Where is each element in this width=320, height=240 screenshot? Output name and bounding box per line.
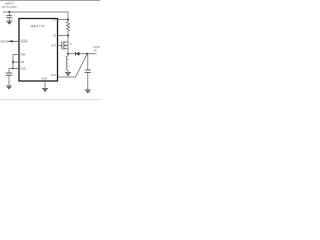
wire FB pin stub bbox=[13, 61, 19, 63]
svg-text:CS: CS bbox=[53, 35, 57, 38]
wire left branch vertical bbox=[12, 55, 14, 69]
node output junction bbox=[86, 53, 88, 55]
ground left bbox=[6, 85, 12, 87]
capacitor C2 output bbox=[87, 54, 89, 70]
wire GND pin bottom bbox=[44, 81, 46, 88]
wire page rule bottom bbox=[0, 99, 100, 101]
svg-text:GND: GND bbox=[42, 76, 48, 80]
ground GND pin bbox=[42, 88, 48, 90]
svg-text:P: P bbox=[70, 43, 72, 46]
wire GND pin stub bbox=[9, 68, 19, 70]
node input junction bbox=[8, 11, 10, 13]
node switch junction bbox=[67, 53, 69, 55]
wire CS to FET source bbox=[64, 36, 68, 43]
wire REF pin stub bbox=[13, 54, 19, 56]
svg-text:EXT: EXT bbox=[51, 45, 56, 48]
IC U1 MAX774 bbox=[19, 19, 58, 82]
svg-text:FB: FB bbox=[21, 61, 25, 64]
svg-text:GND: GND bbox=[21, 68, 27, 71]
wire diode to output bbox=[80, 53, 97, 55]
wire page rule top bbox=[0, 0, 100, 2]
svg-text:V+: V+ bbox=[53, 19, 57, 22]
svg-text:ON/OFF: ON/OFF bbox=[0, 40, 10, 43]
wire cap C3 bottom bbox=[8, 75, 10, 85]
svg-text:OUT: OUT bbox=[51, 74, 57, 77]
wire EXT pin stub to gate bbox=[58, 45, 62, 47]
wire cap C1 top bbox=[8, 12, 10, 16]
svg-text:REF: REF bbox=[21, 54, 26, 57]
diode D1 bbox=[74, 52, 76, 56]
svg-text:MAX774: MAX774 bbox=[31, 25, 45, 29]
wire FET drain down bbox=[64, 49, 68, 54]
ground input bbox=[6, 20, 12, 22]
wire CS pin stub bbox=[58, 35, 69, 37]
capacitor C1 bbox=[6, 15, 12, 17]
resistor R1 sense bbox=[66, 20, 69, 36]
wire to diode anode bbox=[68, 53, 75, 55]
node CS junction bbox=[67, 35, 69, 37]
svg-text:INPUT: INPUT bbox=[5, 1, 14, 5]
ground output cap bbox=[85, 89, 91, 91]
wire input rail bbox=[3, 12, 68, 20]
wire down to C3 bbox=[8, 69, 10, 73]
node V+ junction bbox=[67, 19, 69, 21]
wire cap C1 bottom bbox=[8, 18, 10, 21]
wire V+ pin stub bbox=[58, 19, 69, 21]
node REF-FB junction bbox=[12, 61, 14, 63]
transistor Q1 P-channel MOSFET bbox=[61, 42, 63, 50]
capacitor C3 ref bypass bbox=[6, 72, 13, 74]
inductor L1 bbox=[66, 54, 68, 73]
svg-text:-5V: -5V bbox=[93, 49, 97, 52]
ground inductor bbox=[65, 72, 71, 74]
svg-text:SHDN: SHDN bbox=[21, 40, 28, 43]
wire OUT pin trace bbox=[58, 54, 88, 77]
svg-text:(3V TO 16.5V): (3V TO 16.5V) bbox=[2, 6, 18, 9]
node GND junction bbox=[12, 68, 14, 70]
